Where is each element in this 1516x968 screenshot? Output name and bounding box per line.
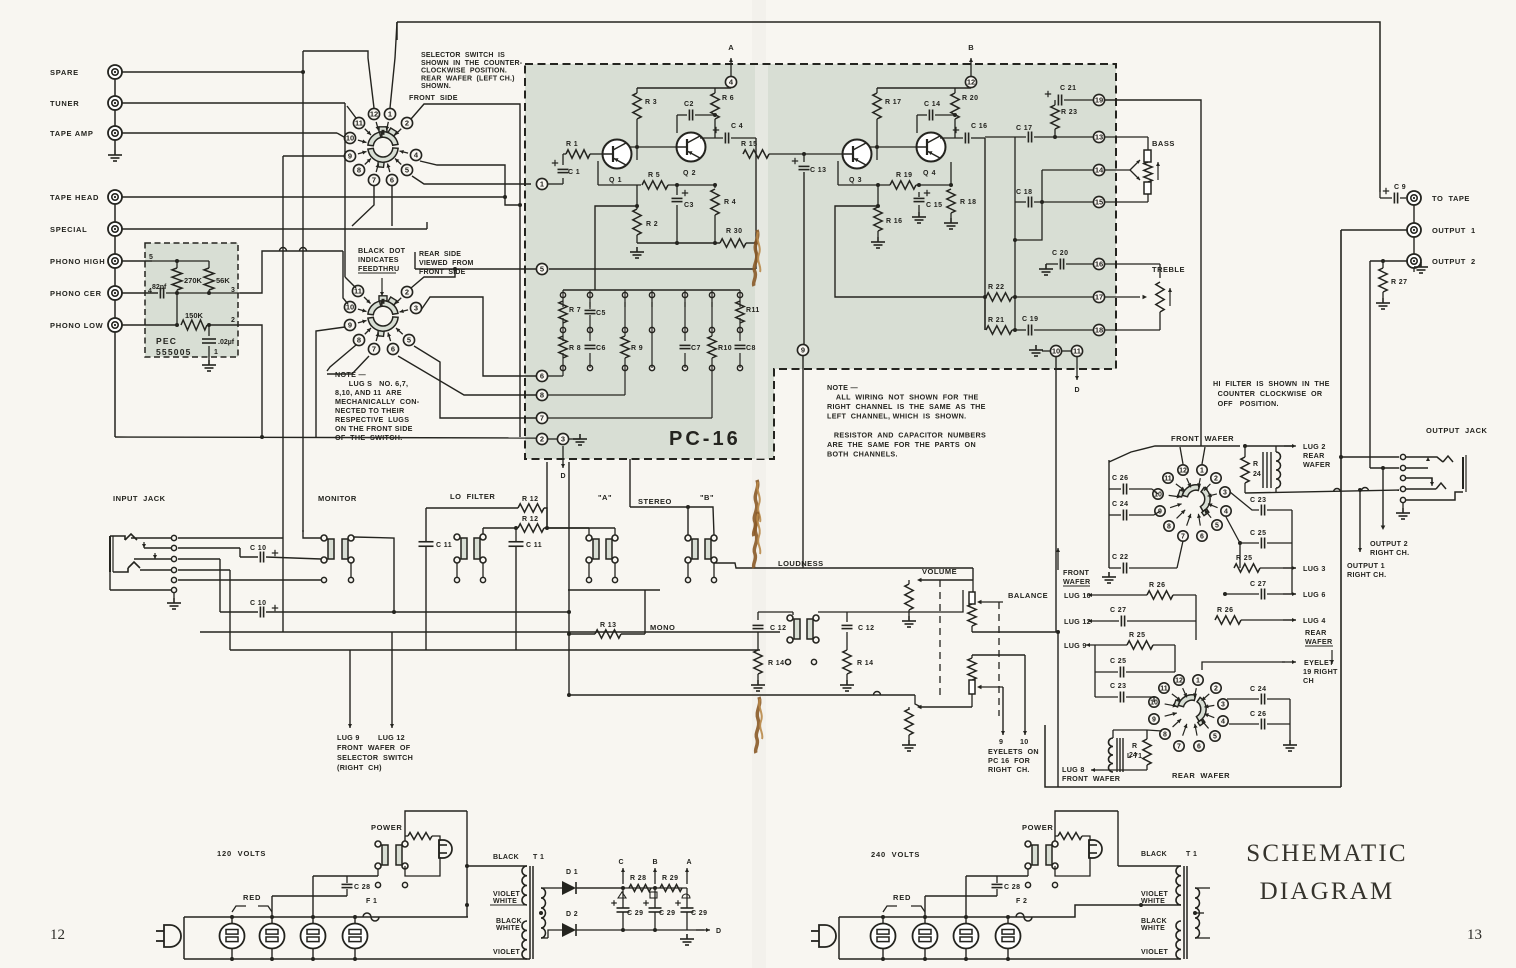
svg-text:LUG 10: LUG 10 — [1064, 591, 1091, 600]
svg-text:R 29: R 29 — [662, 875, 678, 882]
svg-text:1: 1 — [214, 349, 218, 356]
svg-text:56K: 56K — [216, 276, 230, 285]
svg-text:RIGHT CH.: RIGHT CH. — [1347, 570, 1386, 579]
svg-text:R 5: R 5 — [648, 172, 660, 179]
svg-text:CH: CH — [1303, 676, 1314, 685]
svg-text:8: 8 — [357, 166, 361, 175]
svg-text:SHOWN IN THE COUNTER-: SHOWN IN THE COUNTER- — [421, 60, 523, 67]
svg-text:RIGHT CHANNEL IS THE SAME: RIGHT CHANNEL IS THE SAME AS THE — [827, 402, 986, 411]
svg-text:Q 4: Q 4 — [923, 170, 936, 177]
svg-text:WAFER: WAFER — [1305, 637, 1333, 646]
svg-text:POWER: POWER — [1022, 823, 1053, 832]
svg-text:R 21: R 21 — [988, 317, 1004, 324]
svg-text:FRONT SIDE: FRONT SIDE — [409, 93, 458, 102]
svg-text:R: R — [1253, 461, 1258, 468]
svg-text:C 14: C 14 — [924, 101, 940, 108]
svg-text:SCHEMATIC: SCHEMATIC — [1246, 840, 1408, 867]
svg-text:VIOLET: VIOLET — [1141, 949, 1169, 956]
svg-text:LUG 3: LUG 3 — [1303, 564, 1326, 573]
svg-text:5: 5 — [1213, 734, 1217, 741]
svg-text:R 13: R 13 — [600, 622, 616, 629]
svg-text:C 29: C 29 — [691, 910, 707, 917]
svg-text:1: 1 — [388, 110, 392, 119]
svg-text:6: 6 — [1200, 534, 1204, 541]
svg-text:LUG 8: LUG 8 — [1062, 765, 1085, 774]
svg-text:TO TAPE: TO TAPE — [1432, 194, 1470, 203]
svg-text:B: B — [968, 43, 974, 52]
svg-text:CLOCKWISE POSITION.: CLOCKWISE POSITION. — [421, 68, 507, 75]
svg-text:12: 12 — [1175, 678, 1183, 685]
svg-text:LUG 4: LUG 4 — [1303, 616, 1326, 625]
svg-text:BLACK: BLACK — [493, 854, 519, 861]
svg-text:C 23: C 23 — [1110, 683, 1126, 690]
svg-text:C 19: C 19 — [1022, 316, 1038, 323]
svg-text:BLACK: BLACK — [496, 918, 522, 925]
svg-text:RIGHT CH.: RIGHT CH. — [988, 765, 1030, 774]
svg-text:FEEDTHRU: FEEDTHRU — [358, 264, 400, 273]
svg-text:9: 9 — [1152, 717, 1156, 724]
svg-text:PHONO HIGH: PHONO HIGH — [50, 257, 105, 266]
svg-text:INPUT JACK: INPUT JACK — [113, 494, 166, 503]
svg-text:2: 2 — [1214, 686, 1218, 693]
svg-text:12: 12 — [370, 110, 378, 119]
svg-text:R 26: R 26 — [1217, 607, 1233, 614]
svg-text:D: D — [560, 473, 565, 480]
svg-text:RESISTOR AND CAPACITOR NUMB: RESISTOR AND CAPACITOR NUMBERS — [827, 431, 986, 440]
svg-text:R 16: R 16 — [886, 218, 902, 225]
svg-text:240 VOLTS: 240 VOLTS — [871, 850, 920, 859]
svg-text:C 27: C 27 — [1250, 581, 1266, 588]
svg-text:PEC: PEC — [156, 336, 177, 346]
svg-text:C 9: C 9 — [1394, 184, 1406, 191]
svg-text:C 24: C 24 — [1250, 686, 1266, 693]
svg-text:TAPE AMP: TAPE AMP — [50, 129, 94, 138]
svg-text:10: 10 — [1020, 737, 1029, 746]
svg-text:FRONT SIDE: FRONT SIDE — [419, 269, 466, 276]
svg-text:8: 8 — [357, 336, 361, 345]
svg-text:8: 8 — [540, 391, 544, 400]
svg-text:R 8: R 8 — [569, 345, 581, 352]
svg-text:C 26: C 26 — [1250, 711, 1266, 718]
svg-text:3: 3 — [414, 304, 418, 313]
svg-text:C 22: C 22 — [1112, 554, 1128, 561]
svg-text:NOTE —: NOTE — — [827, 383, 858, 392]
svg-text:5: 5 — [1215, 523, 1219, 530]
svg-text:17: 17 — [1095, 293, 1103, 302]
svg-text:C7: C7 — [691, 345, 701, 352]
svg-text:WHITE: WHITE — [493, 898, 517, 905]
svg-text:LOUDNESS: LOUDNESS — [778, 559, 824, 568]
svg-text:15: 15 — [1095, 198, 1103, 207]
svg-text:R 7: R 7 — [569, 307, 581, 314]
svg-text:3: 3 — [1221, 702, 1225, 709]
svg-text:C 21: C 21 — [1060, 85, 1076, 92]
svg-text:SPECIAL: SPECIAL — [50, 225, 87, 234]
svg-text:8,10, AND 11 ARE: 8,10, AND 11 ARE — [335, 388, 402, 397]
svg-text:1: 1 — [1196, 678, 1200, 685]
svg-text:Q 2: Q 2 — [683, 170, 696, 177]
svg-text:FRONT WAFER: FRONT WAFER — [1062, 774, 1121, 783]
svg-text:7: 7 — [372, 345, 376, 354]
svg-text:8: 8 — [1163, 732, 1167, 739]
svg-text:C 1: C 1 — [568, 169, 580, 176]
svg-text:R: R — [1132, 743, 1137, 750]
svg-text:19 RIGHT: 19 RIGHT — [1303, 667, 1338, 676]
svg-text:R 23: R 23 — [1061, 109, 1077, 116]
svg-text:"B": "B" — [700, 493, 714, 502]
svg-text:F 2: F 2 — [1016, 898, 1027, 905]
svg-text:LEFT CHANNEL, WHICH IS SHOW: LEFT CHANNEL, WHICH IS SHOWN. — [827, 412, 966, 421]
svg-text:10: 10 — [346, 134, 354, 143]
svg-text:6: 6 — [540, 372, 544, 381]
svg-text:WHITE: WHITE — [1141, 898, 1165, 905]
svg-text:2: 2 — [540, 435, 544, 444]
svg-text:2: 2 — [231, 317, 235, 324]
svg-text:270K: 270K — [184, 276, 203, 285]
svg-text:R 2: R 2 — [646, 221, 658, 228]
svg-text:10: 10 — [1052, 347, 1060, 356]
svg-text:C 24: C 24 — [1112, 501, 1128, 508]
svg-text:1: 1 — [540, 180, 544, 189]
svg-text:PC 16 FOR: PC 16 FOR — [988, 756, 1031, 765]
svg-text:D 2: D 2 — [566, 911, 578, 918]
svg-text:OUTPUT JACK: OUTPUT JACK — [1426, 426, 1488, 435]
svg-text:R 12: R 12 — [522, 516, 538, 523]
svg-text:C 11: C 11 — [436, 542, 452, 549]
svg-text:REAR SIDE: REAR SIDE — [419, 251, 461, 258]
svg-text:12: 12 — [967, 78, 975, 87]
svg-text:COUNTER CLOCKWISE OR: COUNTER CLOCKWISE OR — [1213, 389, 1323, 398]
svg-text:C 27: C 27 — [1110, 607, 1126, 614]
svg-text:OUTPUT 1: OUTPUT 1 — [1347, 561, 1385, 570]
svg-text:.02µf: .02µf — [218, 339, 235, 346]
svg-text:OFF POSITION.: OFF POSITION. — [1213, 399, 1279, 408]
svg-text:LUG S NO. 6,7,: LUG S NO. 6,7, — [335, 379, 408, 388]
svg-text:4: 4 — [148, 288, 152, 295]
svg-text:18: 18 — [1095, 326, 1103, 335]
svg-text:WAFER: WAFER — [1063, 577, 1091, 586]
svg-text:VIOLET: VIOLET — [493, 949, 521, 956]
svg-text:ON THE FRONT SIDE: ON THE FRONT SIDE — [335, 424, 413, 433]
svg-text:BLACK: BLACK — [1141, 851, 1167, 858]
svg-text:RED: RED — [893, 893, 911, 902]
svg-text:R 22: R 22 — [988, 284, 1004, 291]
svg-text:ALL WIRING NOT SHOWN FOR: ALL WIRING NOT SHOWN FOR THE — [827, 393, 979, 402]
svg-text:R 25: R 25 — [1129, 632, 1145, 639]
svg-text:VIOLET: VIOLET — [1141, 891, 1169, 898]
svg-text:POWER: POWER — [371, 823, 402, 832]
svg-text:7: 7 — [540, 414, 544, 423]
svg-text:WHITE: WHITE — [496, 925, 520, 932]
svg-text:REAR WAFER: REAR WAFER — [1172, 771, 1230, 780]
svg-text:10: 10 — [346, 303, 354, 312]
svg-text:SPARE: SPARE — [50, 68, 79, 77]
svg-text:OUTPUT 2: OUTPUT 2 — [1370, 539, 1408, 548]
svg-text:C 23: C 23 — [1250, 497, 1266, 504]
svg-text:A: A — [728, 43, 734, 52]
svg-text:16: 16 — [1095, 260, 1103, 269]
svg-text:C5: C5 — [596, 310, 606, 317]
svg-text:C 28: C 28 — [1004, 884, 1020, 891]
svg-text:11: 11 — [1160, 686, 1168, 693]
svg-text:13: 13 — [1467, 927, 1482, 943]
svg-text:RESPECTIVE LUGS: RESPECTIVE LUGS — [335, 415, 409, 424]
svg-text:TUNER: TUNER — [50, 99, 79, 108]
svg-text:C 26: C 26 — [1112, 475, 1128, 482]
svg-text:C 12: C 12 — [770, 625, 786, 632]
svg-text:C6: C6 — [596, 345, 606, 352]
svg-text:WHITE: WHITE — [1141, 925, 1165, 932]
svg-text:C 29: C 29 — [659, 910, 675, 917]
svg-text:C2: C2 — [684, 101, 694, 108]
svg-text:EYELET: EYELET — [1304, 658, 1334, 667]
svg-text:OUTPUT 1: OUTPUT 1 — [1432, 226, 1476, 235]
svg-text:LUG 12: LUG 12 — [1064, 617, 1091, 626]
svg-text:R 4: R 4 — [724, 199, 736, 206]
svg-text:C 20: C 20 — [1052, 250, 1068, 257]
svg-text:T 1: T 1 — [533, 854, 544, 861]
svg-text:R 30: R 30 — [726, 228, 742, 235]
svg-text:6: 6 — [1197, 744, 1201, 751]
svg-text:R 15: R 15 — [741, 141, 757, 148]
svg-text:(RIGHT CH): (RIGHT CH) — [337, 763, 382, 772]
svg-text:12: 12 — [1179, 468, 1187, 475]
svg-text:MONO: MONO — [650, 623, 675, 632]
svg-text:7: 7 — [372, 176, 376, 185]
svg-text:C 10: C 10 — [250, 600, 266, 607]
svg-text:120 VOLTS: 120 VOLTS — [217, 849, 266, 858]
svg-text:OUTPUT 2: OUTPUT 2 — [1432, 257, 1476, 266]
svg-text:R 19: R 19 — [896, 172, 912, 179]
svg-text:STEREO: STEREO — [638, 497, 672, 506]
svg-text:5: 5 — [540, 265, 544, 274]
svg-text:PHONO LOW: PHONO LOW — [50, 321, 104, 330]
svg-text:ARE THE SAME FOR THE PART: ARE THE SAME FOR THE PARTS ON — [827, 440, 976, 449]
svg-text:4: 4 — [1224, 509, 1228, 516]
svg-text:NECTED TO THEIR: NECTED TO THEIR — [335, 406, 405, 415]
svg-text:BLACK DOT: BLACK DOT — [358, 246, 406, 255]
svg-text:BOTH CHANNELS.: BOTH CHANNELS. — [827, 450, 898, 459]
svg-text:3: 3 — [561, 435, 565, 444]
svg-text:C 4: C 4 — [731, 123, 743, 130]
svg-text:LUG 9: LUG 9 — [1064, 641, 1087, 650]
svg-text:9: 9 — [999, 737, 1003, 746]
svg-text:Q 3: Q 3 — [849, 177, 862, 184]
svg-text:SELECTOR SWITCH IS: SELECTOR SWITCH IS — [421, 52, 505, 59]
svg-text:HI FILTER IS SHOWN IN THE: HI FILTER IS SHOWN IN THE — [1213, 379, 1330, 388]
svg-text:LUG 9: LUG 9 — [337, 733, 360, 742]
svg-text:8: 8 — [1167, 524, 1171, 531]
svg-text:C 18: C 18 — [1016, 189, 1032, 196]
svg-text:13: 13 — [1095, 133, 1103, 142]
svg-text:R 1: R 1 — [566, 141, 578, 148]
svg-text:DIAGRAM: DIAGRAM — [1260, 878, 1395, 905]
svg-text:PHONO CER: PHONO CER — [50, 289, 102, 298]
svg-text:SELECTOR SWITCH: SELECTOR SWITCH — [337, 753, 413, 762]
svg-text:BALANCE: BALANCE — [1008, 591, 1048, 600]
svg-text:24: 24 — [1253, 471, 1261, 478]
svg-text:REAR WAFER (LEFT CH.): REAR WAFER (LEFT CH.) — [421, 75, 515, 82]
svg-text:BASS: BASS — [1152, 139, 1175, 148]
svg-text:INDICATES: INDICATES — [358, 255, 399, 264]
svg-text:6: 6 — [391, 345, 395, 354]
svg-text:12: 12 — [50, 927, 65, 943]
svg-text:VIOLET: VIOLET — [493, 891, 521, 898]
svg-text:1: 1 — [1200, 468, 1204, 475]
svg-text:C: C — [618, 859, 623, 866]
svg-text:R 14: R 14 — [768, 660, 784, 667]
svg-text:"A": "A" — [598, 493, 612, 502]
svg-text:C 10: C 10 — [250, 545, 266, 552]
svg-text:LUG 12: LUG 12 — [378, 733, 405, 742]
svg-text:FRONT: FRONT — [1063, 568, 1090, 577]
svg-text:2: 2 — [405, 119, 409, 128]
svg-text:D: D — [1074, 387, 1079, 394]
svg-text:B: B — [652, 859, 657, 866]
svg-text:5: 5 — [405, 166, 409, 175]
svg-text:5: 5 — [149, 254, 153, 261]
svg-text:C 17: C 17 — [1016, 125, 1032, 132]
svg-text:82pf: 82pf — [152, 284, 167, 291]
svg-text:LO FILTER: LO FILTER — [450, 492, 495, 501]
svg-text:LUG 6: LUG 6 — [1303, 590, 1326, 599]
svg-text:R 27: R 27 — [1391, 279, 1407, 286]
svg-text:C8: C8 — [746, 345, 756, 352]
svg-text:3: 3 — [1223, 490, 1227, 497]
svg-text:LUG 2: LUG 2 — [1303, 442, 1326, 451]
svg-text:C 15: C 15 — [926, 202, 942, 209]
svg-text:R 9: R 9 — [631, 345, 643, 352]
svg-text:FRONT WAFER: FRONT WAFER — [1171, 434, 1234, 443]
svg-text:Q 1: Q 1 — [609, 177, 622, 184]
svg-text:11: 11 — [1073, 347, 1081, 356]
svg-text:TREBLE: TREBLE — [1152, 265, 1185, 274]
svg-text:555005: 555005 — [156, 347, 192, 357]
svg-text:2: 2 — [1214, 476, 1218, 483]
svg-text:11: 11 — [355, 119, 363, 128]
svg-text:24: 24 — [1129, 752, 1137, 759]
svg-text:REAR: REAR — [1305, 628, 1327, 637]
svg-text:9: 9 — [348, 152, 352, 161]
svg-text:RED: RED — [243, 893, 261, 902]
svg-text:4: 4 — [1221, 719, 1225, 726]
svg-text:C 25: C 25 — [1250, 530, 1266, 537]
svg-text:F 1: F 1 — [366, 898, 377, 905]
svg-text:C 28: C 28 — [354, 884, 370, 891]
svg-text:A: A — [686, 859, 691, 866]
svg-text:C 13: C 13 — [810, 167, 826, 174]
svg-text:R 17: R 17 — [885, 99, 901, 106]
svg-text:C 12: C 12 — [858, 625, 874, 632]
svg-text:7: 7 — [1181, 534, 1185, 541]
svg-text:BLACK: BLACK — [1141, 918, 1167, 925]
svg-text:R 12: R 12 — [522, 496, 538, 503]
svg-text:RIGHT CH.: RIGHT CH. — [1370, 548, 1409, 557]
svg-text:TAPE HEAD: TAPE HEAD — [50, 193, 99, 202]
svg-text:EYELETS ON: EYELETS ON — [988, 747, 1039, 756]
svg-text:VIEWED FROM: VIEWED FROM — [419, 260, 474, 267]
svg-text:C 25: C 25 — [1110, 658, 1126, 665]
svg-text:R 3: R 3 — [645, 99, 657, 106]
svg-text:R 14: R 14 — [857, 660, 873, 667]
svg-text:150K: 150K — [185, 311, 204, 320]
svg-text:C 11: C 11 — [526, 542, 542, 549]
svg-text:VOLUME: VOLUME — [922, 567, 957, 576]
svg-text:14: 14 — [1095, 166, 1104, 175]
svg-text:19: 19 — [1095, 96, 1103, 105]
svg-text:R10: R10 — [718, 345, 732, 352]
svg-text:R 20: R 20 — [962, 95, 978, 102]
svg-text:C 29: C 29 — [627, 910, 643, 917]
svg-text:MECHANICALLY CON-: MECHANICALLY CON- — [335, 397, 420, 406]
svg-text:WAFER: WAFER — [1303, 460, 1331, 469]
svg-text:SHOWN.: SHOWN. — [421, 83, 451, 90]
svg-text:PC-16: PC-16 — [669, 428, 741, 450]
svg-text:FRONT WAFER OF: FRONT WAFER OF — [337, 743, 411, 752]
svg-text:D 1: D 1 — [566, 869, 578, 876]
svg-text:C 16: C 16 — [971, 123, 987, 130]
svg-text:9: 9 — [801, 346, 805, 355]
svg-text:C3: C3 — [684, 202, 694, 209]
svg-text:2: 2 — [405, 288, 409, 297]
svg-text:D: D — [716, 928, 721, 935]
svg-text:REAR: REAR — [1303, 451, 1325, 460]
svg-text:7: 7 — [1177, 744, 1181, 751]
svg-text:R 25: R 25 — [1236, 555, 1252, 562]
svg-text:T 1: T 1 — [1186, 851, 1197, 858]
svg-text:R 26: R 26 — [1149, 582, 1165, 589]
svg-text:9: 9 — [348, 321, 352, 330]
svg-text:6: 6 — [390, 176, 394, 185]
svg-text:R 6: R 6 — [722, 95, 734, 102]
svg-text:5: 5 — [407, 336, 411, 345]
svg-text:R 28: R 28 — [630, 875, 646, 882]
svg-text:R11: R11 — [746, 307, 760, 314]
svg-text:11: 11 — [1164, 476, 1172, 483]
svg-text:R 18: R 18 — [960, 199, 976, 206]
svg-text:MONITOR: MONITOR — [318, 494, 357, 503]
